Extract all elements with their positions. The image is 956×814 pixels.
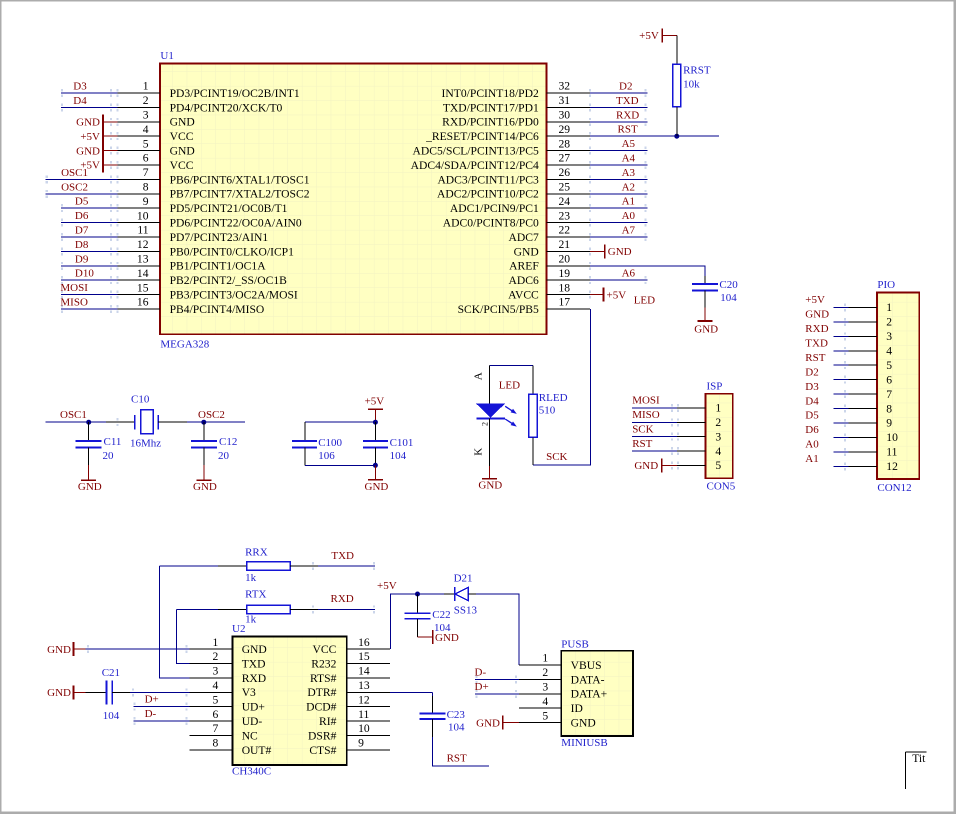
svg-text:104: 104 [103,710,120,722]
svg-text:MOSI: MOSI [60,282,88,294]
svg-text:RXD: RXD [805,323,828,335]
svg-text:3: 3 [886,330,892,343]
svg-text:RST: RST [447,752,467,764]
svg-text:104: 104 [448,722,465,734]
U2 right pin names [306,643,337,757]
svg-text:PD4/PCINT20/XCK/T0: PD4/PCINT20/XCK/T0 [170,101,283,114]
svg-text:14: 14 [137,267,149,280]
wire net A1 from U1 pin 24 [589,204,648,212]
svg-text:GND: GND [76,145,100,157]
wire SCK from U1 pin 17 down to LED circuit [533,309,590,465]
power port GND at C22 [418,630,433,644]
svg-text:2: 2 [715,416,721,429]
svg-text:16Mhz: 16Mhz [130,437,161,449]
wire net D- to U2 pin 6 [133,717,189,725]
wire net MOSI to ISP pin 1 [632,404,706,412]
svg-text:UD-: UD- [242,715,263,728]
svg-text:DATA-: DATA- [571,673,605,686]
PUSB pin numbers 1-5 [542,652,548,723]
svg-text:TXD/PCINT17/PD1: TXD/PCINT17/PD1 [443,101,539,114]
svg-text:+5V: +5V [639,30,659,42]
resistor RTX [247,605,291,613]
wire U2 pin 13 DTR# to C23 [390,692,433,696]
wire +5V junction to D21 [418,593,445,595]
svg-text:GND: GND [78,481,102,493]
svg-text:A2: A2 [622,181,635,193]
capacitor C12 [191,422,217,465]
svg-text:3: 3 [213,665,219,678]
svg-text:3: 3 [143,109,149,122]
svg-text:11: 11 [137,224,148,237]
svg-text:11: 11 [358,708,369,721]
svg-text:A4: A4 [622,153,636,165]
svg-text:6: 6 [886,373,892,386]
svg-text:1k: 1k [245,614,257,626]
wire net A3 from U1 pin 26 [589,175,648,183]
svg-text:12: 12 [137,238,149,251]
wire RTX to RXD [290,605,375,613]
wire net D3 to PIO pin 7 [833,390,877,398]
wire U2 pin 16 VCC to +5V rail [391,594,418,649]
IC U1 MEGA328 body [160,64,547,335]
svg-text:25: 25 [559,181,571,194]
svg-text:TXD: TXD [242,657,266,670]
power port GND on U1 pin 3 [103,114,119,129]
svg-text:5: 5 [715,459,721,472]
PUSB pin names [571,659,608,730]
svg-text:15: 15 [358,650,370,663]
svg-text:4: 4 [886,344,892,357]
svg-text:5: 5 [213,693,219,706]
svg-text:C22: C22 [432,609,450,621]
svg-text:GND: GND [47,687,71,699]
U1 left pins 1-16 [118,93,161,309]
wire net SCK to ISP pin 3 [632,433,706,441]
svg-text:D8: D8 [75,239,89,251]
junction OSC2 / C12 [201,420,206,425]
svg-text:5: 5 [886,359,892,372]
svg-text:4: 4 [542,695,548,708]
svg-text:A1: A1 [805,453,818,465]
svg-text:SCK: SCK [546,451,567,463]
svg-text:16: 16 [137,296,149,309]
svg-text:1: 1 [886,301,892,314]
svg-text:10: 10 [358,722,370,735]
svg-text:A7: A7 [622,225,636,237]
svg-text:10: 10 [137,209,149,222]
svg-text:VCC: VCC [313,643,337,656]
svg-text:D-: D- [475,666,487,678]
crystal C10 [135,410,159,434]
power port GND below C12 [196,465,211,480]
svg-text:PD5/PCINT21/OC0B/T1: PD5/PCINT21/OC0B/T1 [170,202,288,215]
svg-text:2: 2 [886,316,892,329]
wire net A5 from U1 pin 28 [589,147,648,155]
svg-text:PB0/PCINT0/CLKO/ICP1: PB0/PCINT0/CLKO/ICP1 [170,245,295,258]
power port GND on U1 pin 5 [103,143,119,158]
svg-text:D+: D+ [145,694,159,706]
svg-text:4: 4 [715,445,721,458]
capacitor C20 [692,276,718,307]
svg-text:27: 27 [559,152,571,165]
svg-text:D5: D5 [75,196,89,208]
wire net D8 to U1 pin 12 [61,247,119,255]
svg-text:MEGA328: MEGA328 [160,338,209,350]
svg-text:28: 28 [559,137,571,150]
svg-text:U2: U2 [232,623,245,635]
power port GND below C101 [368,465,383,479]
svg-text:Tit: Tit [912,752,926,765]
svg-text:_RESET/PCINT14/PC6: _RESET/PCINT14/PC6 [425,130,539,143]
wire net A0 from U1 pin 23 [589,219,648,227]
svg-text:8: 8 [143,181,149,194]
RRST bottom lead [676,107,678,136]
wire +5V top rail C100-C101 [305,421,376,423]
svg-text:K: K [473,448,485,456]
LED diode symbol [476,404,505,419]
svg-text:GND: GND [242,643,267,656]
power port +5V on U1 pin 4 [103,129,119,144]
svg-text:32: 32 [559,80,571,93]
svg-text:7: 7 [143,166,149,179]
svg-text:2: 2 [481,422,490,426]
resistor RRST [673,64,681,107]
wire net +5V to PIO pin 1 [833,303,877,311]
wire net D5 to PIO pin 9 [833,419,877,427]
svg-text:RRX: RRX [245,547,268,559]
U2 left pin numbers 1-8 [213,636,219,750]
svg-text:D2: D2 [805,366,818,378]
PIO pin numbers 1-12 [886,301,898,473]
ISP pin numbers 1-5 [715,402,721,473]
wire net A7 from U1 pin 22 [589,233,648,241]
junction RST / RRST [674,134,679,139]
svg-text:17: 17 [559,296,571,309]
wire net D10 to U1 pin 14 [61,276,119,284]
svg-text:D7: D7 [75,225,89,237]
capacitor C22 [405,594,431,637]
svg-text:D6: D6 [805,424,819,436]
svg-text:D2: D2 [619,81,632,93]
svg-text:20: 20 [559,253,571,266]
svg-text:GND: GND [170,116,195,129]
svg-text:CON5: CON5 [707,481,736,493]
wire net D- to PUSB pin 2 [475,675,561,683]
wire OSC2 rail [158,421,245,423]
svg-text:AREF: AREF [509,260,539,273]
svg-text:11: 11 [886,446,897,459]
connector PUSB MINIUSB body [561,651,633,736]
svg-text:C20: C20 [719,279,738,291]
svg-text:MISO: MISO [632,409,660,421]
power port +5V above RRST [662,29,677,43]
svg-text:C100: C100 [318,437,342,449]
svg-text:A1: A1 [622,196,635,208]
svg-text:29: 29 [559,123,571,136]
wire net RXD to PIO pin 3 [833,332,877,340]
svg-text:16: 16 [358,636,370,649]
U1 right pins 32-17 [547,93,591,309]
wire net A2 from U1 pin 25 [589,190,648,198]
svg-text:A6: A6 [622,268,636,280]
svg-text:10k: 10k [683,78,700,90]
wire net A1 to PIO pin 12 [833,462,877,470]
wire net MISO to U1 pin 16 [61,305,119,313]
svg-text:D+: D+ [475,681,489,693]
junction OSC1 / C11 [86,420,91,425]
svg-text:R232: R232 [311,657,336,670]
svg-text:ADC6: ADC6 [509,274,539,287]
junction +5V / C101 [373,420,378,425]
svg-text:MISO: MISO [60,297,88,309]
LED cathode lead [489,419,491,466]
svg-text:A3: A3 [622,167,636,179]
svg-text:GND: GND [365,481,389,493]
wire net OSC1 to U1 pin 7 [45,175,118,183]
svg-text:RI#: RI# [319,715,337,728]
U1 left pin numbers 1-16 [137,80,149,309]
svg-text:DSR#: DSR# [308,729,337,742]
svg-text:RLED: RLED [539,392,568,404]
svg-text:D-: D- [145,708,157,720]
connector PIO CON12 body [877,293,919,479]
svg-text:GND: GND [478,480,502,492]
svg-text:ADC0/PCINT8/PC0: ADC0/PCINT8/PC0 [443,217,539,230]
capacitor C21 [86,680,130,704]
capacitor C100 [292,422,317,465]
wire net D4 to U1 pin 2 [61,103,119,111]
wire net RXD from U1 pin 30 [589,118,648,126]
svg-text:26: 26 [559,166,571,179]
power port GND on U1 pin 21 [589,244,605,258]
svg-text:10: 10 [886,431,898,444]
svg-text:GND: GND [47,644,71,656]
capacitor C101 [363,422,388,465]
svg-text:GND: GND [608,246,632,258]
svg-text:RXD/PCINT16/PD0: RXD/PCINT16/PD0 [442,116,539,129]
svg-text:GND: GND [170,145,195,158]
svg-text:PD7/PCINT23/AIN1: PD7/PCINT23/AIN1 [170,231,269,244]
svg-text:D10: D10 [75,268,94,280]
wire D21 to PUSB pin 1 VBUS [476,594,561,665]
wire net D4 to PIO pin 8 [833,405,877,413]
svg-text:GND: GND [476,717,500,729]
wire net D7 to U1 pin 11 [61,233,119,241]
svg-text:SS13: SS13 [454,605,478,617]
power port GND below C20 [698,307,713,321]
wire net D2 to PIO pin 6 [833,376,877,384]
svg-text:C23: C23 [447,709,466,721]
power port +5V above C101 [368,409,383,422]
wire net D+ to PUSB pin 3 [475,690,561,698]
svg-text:D4: D4 [805,395,819,407]
svg-text:D5: D5 [805,410,819,422]
svg-text:2: 2 [143,94,149,107]
svg-text:12: 12 [886,460,898,473]
svg-text:4: 4 [143,123,149,136]
LED D? anode lead [489,365,491,404]
svg-text:5: 5 [542,709,548,722]
svg-text:ISP: ISP [707,381,723,393]
svg-text:D21: D21 [454,572,473,584]
junction GND / C101 [373,463,378,468]
svg-text:106: 106 [318,450,335,462]
wire U1-TXD to RRX [160,566,247,678]
svg-text:A0: A0 [805,439,819,451]
svg-text:+5V: +5V [607,289,627,301]
wire net MISO to ISP pin 2 [632,418,706,426]
svg-text:9: 9 [358,737,364,750]
svg-text:9: 9 [143,195,149,208]
svg-text:1: 1 [542,652,548,665]
svg-text:20: 20 [103,450,115,462]
svg-text:D4: D4 [73,95,87,107]
svg-text:1k: 1k [245,572,257,584]
IC U2 CH340C body [233,636,347,765]
svg-text:104: 104 [390,450,407,462]
svg-text:GND: GND [805,309,829,321]
svg-text:PUSB: PUSB [561,638,589,650]
svg-text:GND: GND [76,117,100,129]
svg-text:14: 14 [358,665,370,678]
LED light arrows [505,406,517,426]
power port GND on U2 pin 1 [74,642,86,656]
wire net D3 to U1 pin 1 [61,89,119,97]
svg-text:A0: A0 [622,210,636,222]
svg-text:ADC2/PCINT10/PC2: ADC2/PCINT10/PC2 [437,188,539,201]
svg-text:GND: GND [435,632,459,644]
svg-text:TXD: TXD [805,337,828,349]
svg-text:+5V: +5V [377,580,397,592]
svg-text:13: 13 [137,253,149,266]
svg-text:VCC: VCC [170,159,194,172]
U1 left pin names [170,87,310,316]
svg-text:19: 19 [559,267,571,280]
wire net D6 to U1 pin 10 [61,219,119,227]
svg-text:PB4/PCINT4/MISO: PB4/PCINT4/MISO [170,303,265,316]
svg-text:ADC4/SDA/PCINT12/PC4: ADC4/SDA/PCINT12/PC4 [411,159,539,172]
capacitor C11 [76,422,102,465]
svg-text:C11: C11 [104,436,122,448]
svg-text:DTR#: DTR# [307,686,336,699]
svg-text:ADC1/PCIN9/PC1: ADC1/PCIN9/PC1 [450,202,539,215]
svg-text:INT0/PCINT18/PD2: INT0/PCINT18/PD2 [442,87,539,100]
svg-text:TXD: TXD [616,95,639,107]
svg-text:21: 21 [559,238,571,251]
svg-text:C12: C12 [219,436,237,448]
power port GND on PUSB pin 5 [503,716,562,730]
svg-text:RST: RST [632,438,652,450]
resistor RRX [247,562,291,570]
wire net RST to ISP pin 4 [632,447,706,455]
svg-text:PD3/PCINT19/OC2B/INT1: PD3/PCINT19/OC2B/INT1 [170,87,300,100]
svg-text:+5V: +5V [80,131,100,143]
svg-text:VBUS: VBUS [571,659,602,672]
svg-text:CON12: CON12 [877,482,911,494]
svg-text:ADC7: ADC7 [509,231,539,244]
wire net RST to PIO pin 5 [833,361,877,369]
wire net MOSI to U1 pin 15 [61,291,119,299]
diode D21 SS13 [444,587,476,601]
svg-text:1: 1 [143,80,149,93]
svg-text:OSC2: OSC2 [198,409,225,421]
svg-text:U1: U1 [160,50,173,62]
power port +5V on U1 pin 18 [589,288,604,302]
wire net TXD to PIO pin 4 [833,347,877,355]
svg-text:30: 30 [559,109,571,122]
svg-text:CH340C: CH340C [232,766,271,778]
svg-text:RTX: RTX [245,588,266,600]
svg-text:RXD: RXD [616,109,639,121]
svg-text:D3: D3 [805,381,819,393]
svg-text:A5: A5 [622,138,636,150]
connector ISP CON5 body [705,394,732,478]
power port +5V on U1 pin 6 [103,158,119,173]
power port GND on ISP pin 5 [662,459,706,473]
svg-text:13: 13 [358,679,370,692]
svg-text:PB7/PCINT7/XTAL2/TOSC2: PB7/PCINT7/XTAL2/TOSC2 [170,188,310,201]
svg-text:PB3/PCINT3/OC2A/MOSI: PB3/PCINT3/OC2A/MOSI [170,289,298,302]
wire AREF U1 pin 20 to C20 [589,262,705,284]
svg-text:RXD: RXD [331,593,354,605]
svg-text:ADC3/PCINT11/PC3: ADC3/PCINT11/PC3 [437,173,539,186]
svg-text:PD6/PCINT22/OC0A/AIN0: PD6/PCINT22/OC0A/AIN0 [170,217,302,230]
svg-text:12: 12 [358,693,370,706]
wire net RST from U1 pin 29 [589,132,719,140]
svg-text:C10: C10 [131,394,150,406]
svg-text:PB6/PCINT6/XTAL1/TOSC1: PB6/PCINT6/XTAL1/TOSC1 [170,173,310,186]
svg-text:OSC2: OSC2 [61,181,88,193]
svg-text:PB1/PCINT1/OC1A: PB1/PCINT1/OC1A [170,260,267,273]
svg-text:ADC5/SCL/PCINT13/PC5: ADC5/SCL/PCINT13/PC5 [413,145,539,158]
power port GND below C11 [81,465,96,480]
svg-text:SCK/PCIN5/PB5: SCK/PCIN5/PB5 [458,303,539,316]
svg-text:3: 3 [542,681,548,694]
svg-text:TXD: TXD [331,550,354,562]
wire GND bottom rail C100-C101 [305,464,376,466]
U1 right pin names [411,87,540,316]
svg-text:RTS#: RTS# [310,672,337,685]
capacitor C23 [420,696,446,737]
svg-text:GND: GND [634,460,658,472]
wire net A4 from U1 pin 27 [589,161,648,169]
svg-text:PIO: PIO [877,279,895,291]
svg-text:RRST: RRST [683,65,711,77]
svg-text:A: A [473,372,485,380]
wire net D+ to U2 pin 5 [133,703,189,711]
resistor RLED [529,394,538,437]
U2 right pins 16-9 [347,649,390,750]
svg-text:LED: LED [499,380,520,392]
wire net OSC2 to U1 pin 8 [45,190,118,198]
svg-text:22: 22 [559,224,571,237]
wire GND to U2 pin 1 [86,645,190,653]
wire net GND to PIO pin 2 [833,318,877,326]
svg-text:6: 6 [213,708,219,721]
wire net TXD from U1 pin 31 [589,103,648,111]
wire net D6 to PIO pin 10 [833,433,877,441]
svg-text:9: 9 [886,417,892,430]
svg-text:23: 23 [559,209,571,222]
svg-text:18: 18 [559,281,571,294]
svg-text:4: 4 [213,679,219,692]
wire RRX to TXD [290,562,375,570]
svg-text:20: 20 [218,450,230,462]
svg-text:5: 5 [143,137,149,150]
U1 right pin numbers 32-17 [559,80,571,309]
svg-text:PB2/PCINT2/_SS/OC1B: PB2/PCINT2/_SS/OC1B [170,274,288,287]
svg-text:AVCC: AVCC [508,289,539,302]
